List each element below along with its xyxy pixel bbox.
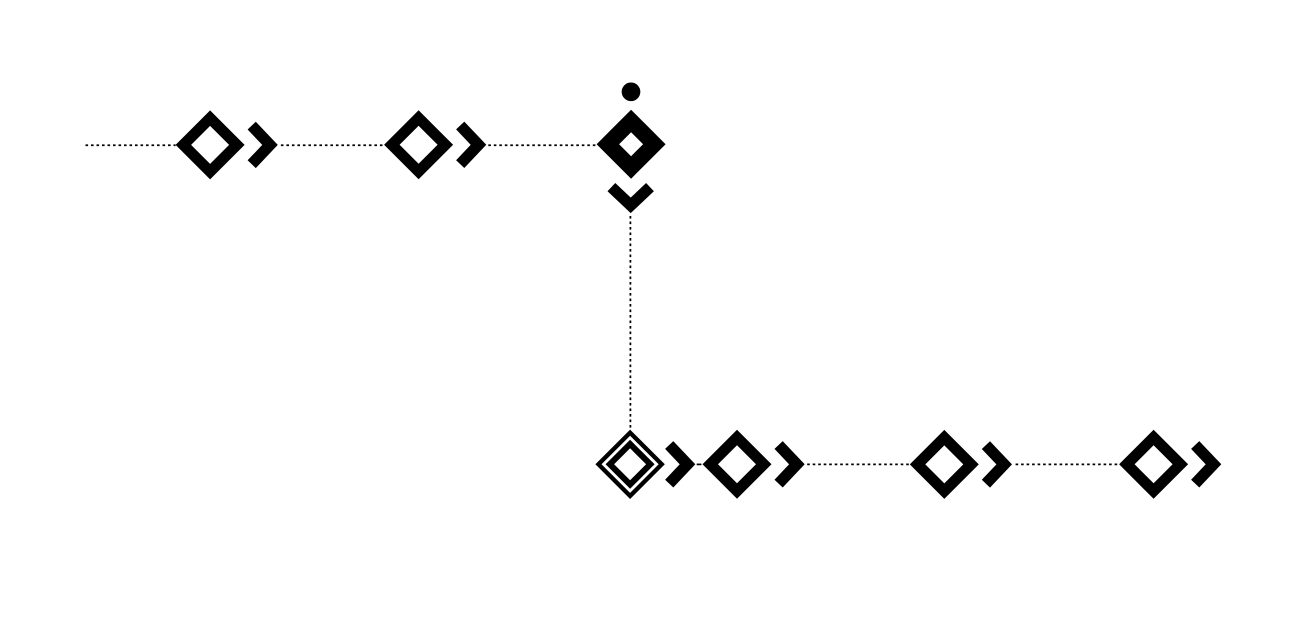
node DD double diamond [595,430,664,499]
wire W7 dashed horizontal [1016,463,1120,465]
node D2 diamond [384,110,453,179]
node D1 diamond [176,110,245,179]
node D6 diamond [1119,430,1188,499]
chevron after D6 [1195,445,1213,484]
chevron after DD [669,445,687,484]
chevron after D4 [779,445,797,484]
node N3 filled diamond [597,110,666,179]
wire W6 dashed horizontal [807,463,909,465]
chevron after D1 [252,126,270,165]
down chevron below N3 [611,187,650,205]
wire W5 short dashed [697,463,702,465]
wire W3 dashed horizontal [488,144,596,146]
wire W2 dashed horizontal [281,144,384,146]
chevron after D5 [986,445,1004,484]
wire W1 dashed horizontal left [86,144,176,146]
node D5 diamond [910,430,979,499]
wire W4 dashed vertical [629,216,631,429]
node D4 diamond [703,430,772,499]
dot above node N3 [622,82,641,101]
chevron after D2 [460,126,478,165]
